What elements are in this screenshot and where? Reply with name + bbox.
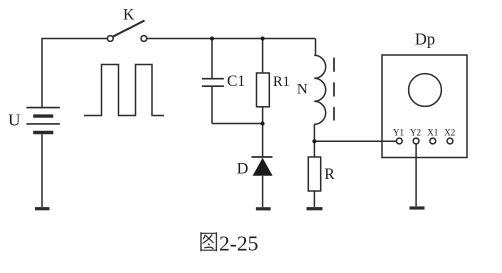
svg-text:R: R xyxy=(324,166,335,183)
wire: node to resistor R xyxy=(313,142,315,158)
wire: battery bottom to ground xyxy=(41,134,43,207)
svg-text:2-25: 2-25 xyxy=(219,232,258,256)
wire: battery top to switch left terminal xyxy=(42,39,107,108)
caption character 图 (drawn) xyxy=(200,232,217,251)
svg-text:X2: X2 xyxy=(444,127,455,137)
battery U xyxy=(26,108,60,133)
oscilloscope screen xyxy=(409,74,442,107)
node: C1 top junction xyxy=(210,37,214,41)
wire: switch right terminal to inductor top xyxy=(147,38,316,40)
ground (R) xyxy=(307,207,323,210)
svg-text:Y2: Y2 xyxy=(410,127,421,137)
svg-text:R1: R1 xyxy=(273,74,290,90)
ground (diode) xyxy=(256,207,271,210)
terminal Y2 xyxy=(413,138,419,144)
node: R1 top junction xyxy=(261,37,265,41)
inductor N xyxy=(314,39,326,142)
svg-text:Dp: Dp xyxy=(415,29,435,48)
wire: C1 bottom to node D xyxy=(212,123,263,125)
svg-text:D: D xyxy=(237,161,249,178)
terminal X2 xyxy=(447,138,453,144)
oscilloscope Dp box xyxy=(382,55,467,158)
square wave signal xyxy=(84,65,164,116)
svg-text:X1: X1 xyxy=(427,127,438,137)
wire: Y2 terminal to ground xyxy=(415,144,417,206)
svg-text:C1: C1 xyxy=(227,73,245,90)
node: coil bottom junction xyxy=(312,139,316,143)
resistor R1 xyxy=(257,39,270,124)
svg-text:Y1: Y1 xyxy=(393,127,404,137)
svg-text:U: U xyxy=(8,110,20,129)
wire: node to oscilloscope Y1 xyxy=(314,140,396,142)
resistor R xyxy=(308,157,320,207)
terminal Y1 xyxy=(396,138,402,144)
node: D top junction xyxy=(261,122,265,126)
ground (oscilloscope) xyxy=(410,206,425,209)
svg-text:N: N xyxy=(297,81,308,97)
switch K xyxy=(107,21,146,42)
core of transformer (dashed line) xyxy=(333,58,335,121)
capacitor C1 xyxy=(202,39,224,124)
ground (battery) xyxy=(35,207,50,210)
terminal X1 xyxy=(430,138,436,144)
svg-text:K: K xyxy=(123,7,135,24)
diode D xyxy=(252,124,273,208)
